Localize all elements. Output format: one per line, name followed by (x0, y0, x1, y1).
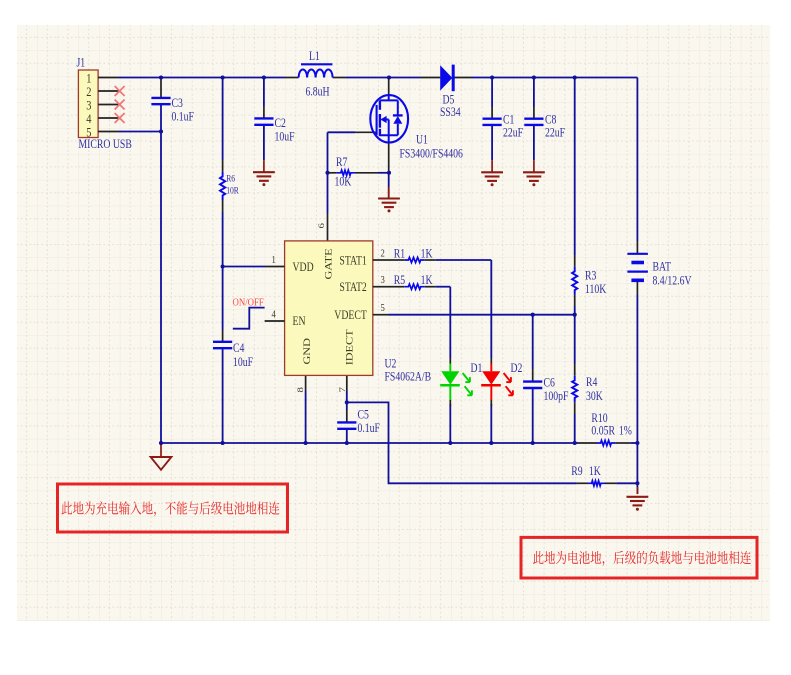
wire bottom rail (161, 442, 575, 444)
wire C1 vertical (491, 78, 493, 108)
svg-text:MICRO USB: MICRO USB (79, 138, 132, 151)
connector J1 (78, 70, 119, 140)
svg-text:10K: 10K (335, 176, 352, 189)
EN on/off step symbol (233, 308, 265, 329)
svg-text:110K: 110K (585, 283, 606, 296)
svg-text:D2: D2 (511, 362, 523, 375)
capacitor C4 (213, 341, 232, 343)
wire MOSFET source to ground (388, 142, 390, 172)
svg-text:C8: C8 (545, 114, 557, 127)
svg-text:C3: C3 (172, 97, 184, 110)
junction battery R9 (635, 481, 639, 485)
wire MOSFET drain (388, 78, 390, 96)
wire D2 cathode (490, 404, 492, 443)
wire R9 right (605, 482, 616, 484)
resistor R10 (597, 440, 616, 445)
wire C8 vertical (533, 78, 535, 108)
annotation box charging-input ground (58, 484, 288, 532)
svg-text:R1: R1 (394, 247, 405, 260)
resistor R7 (337, 170, 355, 175)
svg-text:3: 3 (381, 274, 385, 286)
svg-text:L1: L1 (309, 50, 320, 63)
resistor R6 (220, 172, 225, 200)
U2 pin5 stub (373, 302, 389, 315)
svg-text:D5: D5 (443, 94, 455, 107)
svg-text:VDECT: VDECT (334, 309, 367, 322)
svg-text:4: 4 (272, 309, 276, 321)
svg-text:U1: U1 (416, 134, 428, 147)
svg-text:VDD: VDD (293, 261, 314, 274)
junction R7 left (325, 171, 329, 175)
wire top rail mid (333, 77, 346, 79)
wire battery ground stem (636, 483, 638, 494)
no-connect X pin3 (115, 100, 125, 110)
wire D2 anode vertical (490, 260, 492, 358)
wire pin8 GND drop (305, 375, 307, 391)
svg-text:R6: R6 (226, 173, 235, 184)
U2 pin4 stub (265, 309, 285, 321)
svg-text:0.1uF: 0.1uF (172, 111, 194, 124)
svg-text:R9: R9 (571, 465, 583, 478)
ground C2 (253, 172, 275, 186)
diode D5 (420, 65, 472, 92)
label R9 (571, 465, 601, 478)
svg-text:R7: R7 (336, 156, 348, 169)
junction pin7 C5 (345, 400, 349, 404)
svg-text:2: 2 (381, 248, 385, 260)
wire top rail right (472, 77, 637, 79)
svg-text:C1: C1 (503, 114, 514, 127)
svg-text:1K: 1K (589, 465, 601, 478)
ground C1 (481, 172, 503, 186)
label R1 (394, 247, 433, 260)
junction dots top rail (159, 75, 577, 79)
capacitor C8 (524, 117, 543, 119)
wire C3 vertical (160, 78, 162, 98)
svg-text:7: 7 (338, 387, 348, 393)
capacitor C1 (483, 117, 502, 119)
svg-text:0.1uF: 0.1uF (358, 422, 380, 435)
svg-text:R5: R5 (394, 274, 406, 287)
annotation box battery ground (521, 537, 757, 578)
svg-text:SS34: SS34 (440, 106, 461, 119)
transistor U1 MOSFET (370, 95, 408, 143)
svg-text:1: 1 (272, 254, 276, 266)
wire C5 vertical (346, 402, 348, 410)
svg-text:10uF: 10uF (275, 131, 295, 144)
wire pin7 to R9 (347, 402, 577, 483)
capacitor C2 (254, 117, 273, 119)
wire R10 row (575, 442, 578, 444)
svg-text:R10: R10 (591, 412, 608, 425)
svg-text:10R: 10R (226, 184, 239, 195)
junction VDECT C6 (531, 313, 535, 317)
svg-text:C4: C4 (233, 342, 245, 355)
capacitor C6 (523, 380, 542, 382)
svg-text:5: 5 (381, 302, 385, 314)
svg-text:8: 8 (296, 387, 306, 393)
wire D1 cathode (449, 404, 451, 443)
battery BAT (627, 254, 648, 280)
wire top rail left (119, 77, 285, 79)
svg-text:C6: C6 (544, 377, 556, 390)
resistor R3 (572, 267, 577, 295)
wire battery drop (636, 78, 638, 242)
wire C2 ground stem (263, 160, 265, 172)
svg-text:ON/OFF: ON/OFF (233, 297, 265, 309)
wire pin3 STAT2 row (389, 286, 405, 288)
resistor R5 (404, 284, 425, 289)
svg-text:22uF: 22uF (503, 127, 523, 140)
svg-text:GATE: GATE (324, 248, 335, 279)
ground U1 source (378, 199, 400, 213)
svg-text:4: 4 (86, 112, 91, 126)
capacitor C5 (337, 421, 356, 423)
svg-text:FS4062A/B: FS4062A/B (385, 371, 432, 384)
svg-text:R4: R4 (586, 376, 598, 389)
svg-text:FS3400/FS4406: FS3400/FS4406 (400, 148, 464, 161)
svg-text:STAT1: STAT1 (339, 254, 366, 267)
wire D1 anode vertical (449, 287, 451, 358)
junction VDECT R3R4 (573, 313, 577, 317)
wire R6 vertical (222, 78, 224, 161)
LED D1 (440, 358, 472, 406)
wire R7 row (328, 172, 337, 174)
label R5 (394, 274, 433, 287)
svg-text:6.8uH: 6.8uH (306, 86, 330, 99)
wire pin5 VDECT row (389, 314, 575, 316)
svg-text:30K: 30K (586, 390, 603, 403)
svg-text:22uF: 22uF (545, 127, 565, 140)
no-connect X pin2 (115, 86, 125, 96)
svg-text:GND: GND (302, 338, 313, 364)
wire R3 R4 vertical (574, 78, 576, 256)
resistor R4 (572, 376, 577, 403)
junction J1 pin5 (159, 129, 163, 133)
svg-text:C2: C2 (275, 117, 286, 130)
svg-text:1K: 1K (421, 274, 433, 287)
inductor L1 (299, 64, 333, 77)
junction dots bottom rail (159, 441, 640, 445)
svg-text:8.4/12.6V: 8.4/12.6V (653, 275, 692, 288)
svg-text:J1: J1 (77, 57, 86, 70)
svg-text:100pF: 100pF (544, 390, 569, 403)
svg-text:STAT2: STAT2 (339, 281, 366, 294)
wire gate pin6 vertical (327, 173, 329, 213)
wire VDD feed (223, 266, 265, 268)
wire C4 vertical (222, 267, 224, 331)
svg-text:1K: 1K (421, 247, 433, 260)
no-connect X pin4 (115, 113, 125, 123)
svg-text:R3: R3 (585, 270, 597, 283)
wire input ground stem (160, 443, 162, 457)
wire pin7 IDECT drop (346, 375, 348, 391)
node J1 pin5 to C3 (119, 131, 161, 133)
U2 pin3 stub (373, 274, 389, 287)
capacitor C3 (151, 97, 170, 99)
wire battery lower (636, 241, 638, 253)
svg-text:IDECT: IDECT (344, 329, 355, 365)
svg-text:6: 6 (317, 223, 327, 229)
svg-text:0.05R: 0.05R (591, 425, 615, 438)
label R10 value (591, 425, 632, 438)
ground battery (627, 497, 649, 511)
svg-text:3: 3 (86, 98, 91, 112)
resistor R1 (404, 257, 425, 262)
svg-text:10uF: 10uF (233, 356, 253, 369)
svg-text:D1: D1 (471, 362, 483, 375)
svg-text:U2: U2 (385, 358, 397, 371)
wire MOSFET gate feed (355, 131, 377, 133)
svg-text:BAT: BAT (653, 261, 672, 274)
svg-text:C5: C5 (358, 408, 370, 421)
U2 pin1 stub (265, 254, 285, 266)
IC U2 (285, 241, 373, 376)
junction R7 right (387, 171, 391, 175)
ground C8 (523, 172, 545, 186)
wire pin2 STAT1 row (389, 259, 405, 261)
LED D2 (481, 358, 513, 406)
svg-text:1%: 1% (619, 425, 632, 438)
svg-text:2: 2 (86, 85, 91, 99)
wire C6 vertical (532, 315, 534, 369)
wire C2 vertical (263, 78, 265, 107)
U2 pin2 stub (373, 248, 389, 260)
svg-text:EN: EN (293, 315, 306, 328)
svg-text:1: 1 (86, 71, 91, 85)
ground input triangle (151, 457, 172, 470)
resistor R9 (588, 481, 606, 486)
junction VDD (221, 264, 225, 268)
